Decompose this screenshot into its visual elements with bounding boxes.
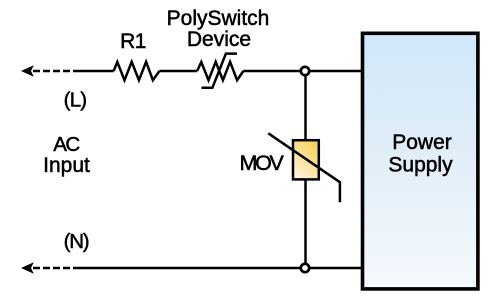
- resistor R1: [114, 62, 160, 80]
- label Power Supply: [388, 131, 453, 177]
- svg-text:Input: Input: [43, 154, 90, 177]
- label AC Input: [43, 133, 90, 177]
- svg-text:PolySwitch: PolySwitch: [167, 7, 270, 30]
- svg-text:MOV: MOV: [239, 151, 284, 175]
- svg-text:Power: Power: [392, 131, 452, 154]
- arrowhead L line: [21, 65, 34, 77]
- svg-text:(L): (L): [64, 89, 87, 112]
- wire N dashed segment: [33, 267, 75, 270]
- svg-text:Device: Device: [187, 28, 251, 51]
- svg-text:R1: R1: [120, 30, 146, 53]
- wire between R1 and polyswitch: [159, 70, 197, 73]
- wire polyswitch to node A: [243, 70, 300, 73]
- wire N solid to node B: [75, 267, 301, 270]
- node B terminal circle: [301, 264, 309, 272]
- varistor MOV diagonal stroke: [268, 133, 340, 202]
- arrowhead N line: [21, 262, 34, 274]
- wire L dashed segment: [33, 70, 75, 73]
- svg-text:AC: AC: [53, 133, 80, 156]
- wire MOV to node B: [304, 179, 307, 263]
- wire L solid to resistor: [75, 70, 114, 73]
- svg-text:(N): (N): [64, 230, 89, 253]
- wire node A to power supply: [310, 70, 362, 73]
- wire node B to power supply: [310, 267, 362, 270]
- polyswitch strike mark: [202, 54, 238, 88]
- polyswitch device RT1 zigzag: [197, 62, 243, 80]
- wire node A to MOV: [304, 76, 307, 140]
- node A terminal circle: [301, 67, 309, 75]
- label PolySwitch Device: [167, 7, 270, 51]
- varistor MOV body: [293, 140, 319, 179]
- power supply box U1: [363, 33, 478, 289]
- svg-text:Supply: Supply: [388, 154, 453, 177]
